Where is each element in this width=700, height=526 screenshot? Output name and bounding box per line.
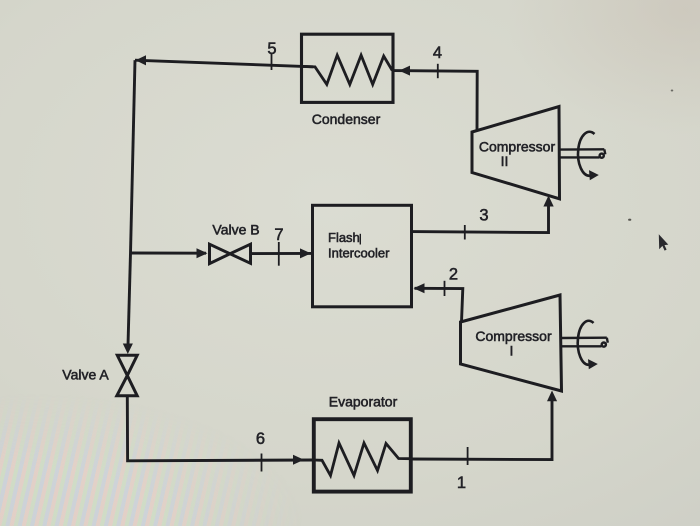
- valve B (bowtie): [210, 244, 251, 263]
- wire: left vertical line from branch down to valve A: [128, 253, 131, 345]
- wire: line 2 from compressor I outlet to flash intercooler: [415, 288, 463, 322]
- svg-text:1: 1: [457, 474, 466, 492]
- svg-text:Valve B: Valve B: [212, 222, 259, 238]
- arrow into valve B pointing right: [197, 248, 208, 258]
- tick node 7: [278, 242, 280, 266]
- arrow into flash intercooler pointing right: [300, 248, 311, 258]
- tick node 4: [437, 64, 439, 78]
- valve A (expansion valve, vertical bowtie): [117, 355, 137, 396]
- wire: line 3 from flash intercooler to compressor II inlet: [412, 205, 549, 233]
- tick node 6: [261, 454, 263, 472]
- svg-text:Intercooler: Intercooler: [328, 246, 390, 261]
- svg-text:Compressor: Compressor: [479, 139, 556, 155]
- arrow into compressor I pointing up: [547, 391, 557, 402]
- evaporator box: [314, 419, 411, 491]
- svg-text:4: 4: [433, 44, 442, 62]
- arrow into compressor II pointing up: [543, 196, 553, 207]
- condenser zigzag coil: [302, 55, 393, 84]
- speck dot 2: [671, 90, 674, 92]
- tick node 3: [464, 225, 466, 240]
- arrow into valve A pointing down: [123, 344, 133, 355]
- flash intercooler box: [313, 205, 412, 306]
- text cursor after Flash: [359, 234, 361, 245]
- svg-text:Flash: Flash: [328, 230, 360, 245]
- arrow into condenser pointing left: [399, 66, 410, 76]
- arrow at top-left corner pointing left: [136, 55, 147, 65]
- condenser box: [302, 34, 394, 102]
- compressor II body: [472, 107, 560, 199]
- svg-text:Valve A: Valve A: [62, 367, 109, 383]
- svg-text:3: 3: [479, 207, 488, 225]
- compressor I body: [461, 295, 562, 391]
- wire: valve B branch line from left line to valve B: [131, 252, 207, 255]
- compressor II shaft: [560, 149, 606, 157]
- wire: left vertical line from corner down to valve B branch: [131, 60, 136, 253]
- arrow into flash intercooler pointing left: [414, 283, 425, 293]
- compressor II rotation arrow: [578, 132, 594, 176]
- svg-text:I: I: [510, 343, 514, 359]
- arrow into evaporator pointing right: [293, 455, 304, 465]
- tick node 5: [271, 53, 273, 71]
- mouse cursor pointer: [659, 234, 669, 250]
- evaporator zigzag coil: [314, 443, 411, 476]
- wire: below valve A down to bottom corner then right to evaporator: [127, 396, 313, 461]
- svg-text:Evaporator: Evaporator: [329, 394, 398, 410]
- svg-text:5: 5: [267, 40, 276, 58]
- svg-text:Condenser: Condenser: [312, 111, 381, 127]
- compressor I shaft: [561, 338, 608, 347]
- svg-text:2: 2: [449, 266, 458, 284]
- svg-text:II: II: [501, 153, 509, 169]
- wire: line 5 from condenser to top-left corner: [135, 60, 313, 67]
- svg-text:Compressor: Compressor: [475, 328, 552, 344]
- wire: line 1 from evaporator to compressor I inlet: [411, 395, 552, 460]
- speck dot 1: [628, 219, 631, 221]
- compressor I rotation arrow: [578, 321, 594, 365]
- tick node 2: [444, 281, 446, 296]
- svg-text:6: 6: [256, 430, 265, 448]
- wire: valve B to flash intercooler: [251, 252, 313, 255]
- tick node 1: [467, 447, 469, 465]
- svg-text:7: 7: [274, 226, 283, 244]
- wire: line 4 from compressor II up and left into condenser: [393, 71, 477, 131]
